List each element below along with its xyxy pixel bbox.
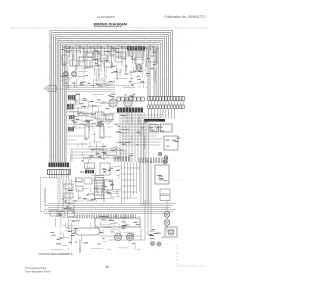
- connector P5 row (cells): [117, 97, 144, 101]
- defrost heater ladder box: [95, 178, 104, 199]
- svg-text:Publication No. 5995417TC: Publication No. 5995417TC: [165, 15, 207, 19]
- overload protector stacked boxes: [160, 189, 170, 201]
- splice tick row right: [138, 158, 140, 164]
- fold mark dotted corner bottom-right: [177, 245, 205, 266]
- right side lower components box: [155, 160, 169, 184]
- svg-text:ALM: ALM: [150, 230, 155, 233]
- auger motor box: [149, 50, 157, 62]
- bottom-right accessory cluster: [149, 227, 177, 246]
- svg-text:COMPRESSOR: COMPRESSOR: [44, 187, 47, 205]
- wires from left connector down to lower bus: [60, 179, 69, 204]
- wire drops from top bus into upper components: [65, 45, 158, 73]
- lamp wiring: [166, 201, 168, 233]
- svg-text:26: 26: [105, 265, 109, 269]
- refrigerator light lamp: [164, 220, 170, 226]
- fan motor labels: [110, 94, 136, 97]
- defrost timer wide box: [95, 214, 140, 228]
- connector row on right bus J8: [148, 97, 185, 101]
- splice ticks under lower bus: [75, 215, 77, 219]
- center cluster small boxes: [70, 144, 122, 202]
- dispenser module box: [135, 58, 143, 71]
- center-left component column boxes: [62, 184, 77, 209]
- connector block left bus (dark): [49, 163, 70, 168]
- defrost control relay box: [164, 136, 180, 150]
- lower band extra wiring texture: [51, 216, 141, 250]
- condenser fan motor: [124, 99, 132, 107]
- title WIRING DIAGRAM: [94, 23, 127, 27]
- evaporator fan motor: [109, 99, 117, 107]
- svg-text:WIRING DIAGRAM: WIRING DIAGRAM: [94, 23, 127, 27]
- freezer light lamp: [164, 212, 170, 218]
- right bus continuation wires below connectors: [149, 101, 184, 119]
- compressor motor circle: [114, 233, 121, 240]
- connector row on right bus J9: [148, 105, 185, 109]
- wire links in icemaker cluster: [92, 53, 102, 55]
- splice tick row left: [113, 156, 115, 162]
- wire label ticks below top bus: [67, 51, 122, 58]
- component value labels upper cluster: [129, 80, 132, 82]
- svg-text:VOLTAGE MEASUREMENTS: VOLTAGE MEASUREMENTS: [38, 252, 73, 256]
- wire ladder center-right: [120, 112, 163, 204]
- interconnect wires left stack to center: [67, 96, 119, 158]
- ice maker module cluster (small boxes): [62, 48, 126, 67]
- connector P6 dark row: [117, 108, 143, 113]
- mid-right vertical harness wires: [141, 123, 149, 205]
- wire main harness bus (staple: top run, left drop, right drop): [50, 31, 173, 163]
- connector J2 (top row header): [127, 47, 145, 58]
- run capacitor oval: [68, 228, 100, 235]
- center field extra wiring texture: [81, 112, 148, 160]
- lower-left terminal boxes: [50, 208, 75, 217]
- damper control tall boxes: [85, 126, 104, 138]
- water valve solenoid circles: [63, 71, 76, 76]
- svg-text:# Functional Parts: # Functional Parts: [25, 266, 47, 270]
- wires to compressor circles: [100, 160, 151, 240]
- terminal strip below ground bar: [150, 124, 172, 132]
- svg-text:* Non-Illustrated Parts: * Non-Illustrated Parts: [24, 270, 51, 274]
- thermostat box mid-left: [95, 112, 113, 126]
- mid-left wiring and labels: [66, 86, 115, 129]
- door switch on left bus: [44, 86, 70, 92]
- ground bar (dark): [144, 119, 165, 122]
- dotted separator rule: [11, 27, 207, 29]
- lower horizontal wire bus: [44, 204, 176, 214]
- scan noise speckles (decorative texture): [45, 31, 185, 253]
- relay coil circles: [158, 152, 168, 159]
- connector blocks mid-left: [67, 95, 76, 110]
- compressor dashed enclosure box: [41, 178, 59, 212]
- defrost thermostat box: [105, 180, 113, 190]
- svg-text:GHSC239TD: GHSC239TD: [97, 15, 116, 19]
- start relay motor circle: [126, 233, 133, 240]
- connector plug left bus with pins: [48, 170, 71, 179]
- switch blocks mid-left extra: [68, 115, 75, 131]
